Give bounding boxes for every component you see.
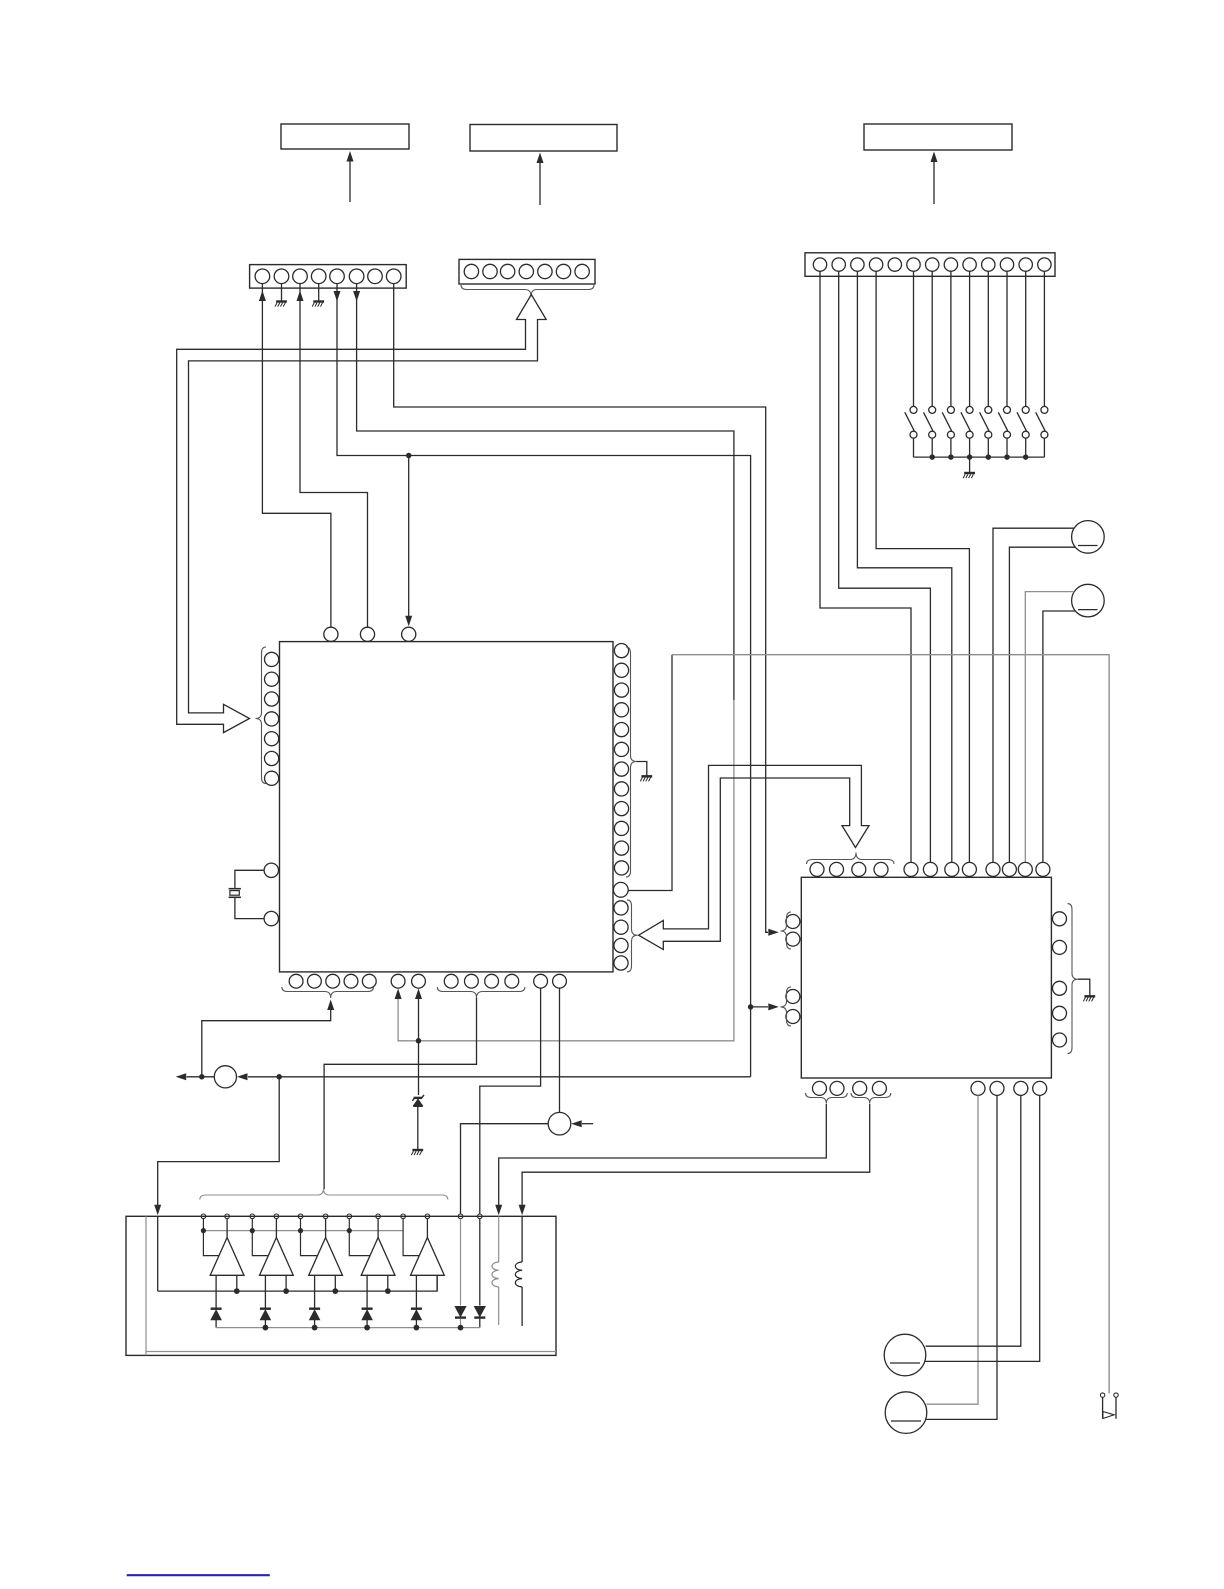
U1 top pins bbox=[324, 627, 338, 641]
wire A5 output to common bus bbox=[436, 1275, 438, 1291]
diode D4 bbox=[362, 1307, 373, 1309]
brace U2 bottom group A bbox=[806, 1093, 848, 1104]
U1 bottom pins 6,7 bbox=[391, 974, 405, 988]
driver amplifier A2 bbox=[260, 1238, 294, 1276]
wire U2 groupA to inductor L1 bbox=[499, 1104, 827, 1206]
wire CN3 pin2 to U2 top bbox=[839, 271, 931, 862]
U2 bottom pins group C bbox=[971, 1081, 985, 1095]
IC U1 body bbox=[280, 642, 614, 972]
brace U2 right pins bbox=[1068, 904, 1079, 1054]
wire inductor L2 tail bbox=[521, 1287, 523, 1326]
wire U1 pin7 to zener bbox=[418, 997, 420, 1096]
ground at switch bus bbox=[964, 472, 975, 474]
driver amplifier A4 bbox=[361, 1238, 395, 1276]
driver amplifier A3 bbox=[309, 1238, 343, 1276]
connector CN3 body bbox=[805, 253, 1055, 276]
diode return bus bbox=[216, 1327, 480, 1329]
wire bottom group B to driver block brace bbox=[324, 998, 476, 1189]
wire CN3 pin10 to switch S5 bbox=[987, 271, 989, 406]
motor connector MB bbox=[885, 1392, 927, 1434]
wire A4 output to common bus bbox=[387, 1275, 389, 1291]
wire rail to driver block left input bbox=[158, 1077, 280, 1206]
brace over driver block bbox=[200, 1189, 448, 1200]
arrow into driver block (L2) bbox=[519, 1205, 526, 1216]
wire CN3 pin8 to switch S3 bbox=[950, 271, 952, 406]
switch S7 bbox=[1022, 406, 1029, 413]
wire CN1 pin8 to U2 left group1 bbox=[394, 284, 768, 933]
brace U1 bottom group B bbox=[437, 987, 525, 998]
label box 1 (top left) bbox=[281, 124, 409, 149]
wire A4 output to diode D4 bbox=[366, 1275, 368, 1307]
wire CN1 pin5 bus bbox=[337, 284, 751, 1077]
U1 bottom pins 12,13 bbox=[534, 974, 548, 988]
brace over U2 top-left pins bbox=[807, 853, 895, 865]
wire CN3 pin3 to U2 top bbox=[857, 271, 951, 862]
motor connector MA bbox=[884, 1334, 926, 1376]
junction enable bus A4 bbox=[347, 1228, 352, 1233]
CN1 pin5 input arrow (down) bbox=[334, 291, 341, 302]
wire J2 lower to U2 top bbox=[1043, 611, 1075, 862]
wire CN3 pin4 to U2 top bbox=[876, 271, 969, 862]
brace under CN2 bbox=[461, 285, 594, 297]
junction enable bus A2 bbox=[250, 1228, 255, 1233]
U1 right pin 13 (serial out) bbox=[613, 882, 628, 897]
wire input A4 bbox=[349, 1219, 369, 1256]
wire CN1 pin6 upper bbox=[357, 284, 734, 700]
ground at zener bbox=[412, 1149, 423, 1151]
wire CN3 pin11 to switch S6 bbox=[1006, 271, 1008, 406]
wire to buzzer bbox=[1108, 655, 1110, 1393]
wire input A1 bbox=[203, 1219, 218, 1256]
switch S2 bbox=[929, 406, 936, 413]
wire U1 pin13 long rail to buzzer bbox=[628, 655, 672, 891]
wire diode D4 to return bus bbox=[366, 1320, 368, 1328]
wire A3 output to diode D3 bbox=[314, 1275, 316, 1307]
switch S5 bbox=[985, 406, 992, 413]
wire U2 to motor connector MA lower bbox=[925, 1095, 1039, 1361]
wire zener to ground bbox=[417, 1106, 419, 1149]
node M circle bbox=[548, 1112, 571, 1135]
CN1 pin4 ground stub bbox=[318, 284, 320, 301]
diode D2 bbox=[260, 1307, 271, 1309]
arrow into node N bbox=[237, 1073, 248, 1080]
diode D7 bbox=[475, 1307, 486, 1317]
hollow bus arrow CN2 / U1 (block arrow pipe) bbox=[177, 295, 547, 733]
inductor L1 bbox=[492, 1262, 499, 1287]
driver common bus bbox=[158, 1275, 437, 1291]
diode D6 bbox=[455, 1307, 466, 1317]
arrow up into U1 bottom pin6 bbox=[395, 989, 402, 1000]
brace U1 bottom group A bbox=[282, 987, 374, 998]
wire inductor L1 tail bbox=[498, 1287, 500, 1325]
driver block input terminals bbox=[201, 1214, 206, 1219]
wire input B1 bbox=[226, 1219, 228, 1238]
wire CN1 pin3 to U1 top pin2 bbox=[300, 284, 368, 628]
wire input B4 bbox=[377, 1219, 379, 1238]
wire A2 output to diode D2 bbox=[264, 1275, 266, 1307]
wire U1 pin13b to node M bbox=[559, 988, 561, 1112]
junction common bus A1 bbox=[234, 1288, 240, 1294]
wire rail left segment bbox=[187, 1076, 215, 1078]
wire A1 output to diode D1 bbox=[215, 1275, 217, 1307]
switch common bus bbox=[914, 456, 1045, 458]
wire CN3 pin1 to U2 top bbox=[820, 271, 911, 862]
junction enable bus A1 bbox=[201, 1228, 206, 1233]
driver block body bbox=[126, 1216, 556, 1355]
wire CN3 pin12 to switch S7 bbox=[1025, 271, 1027, 406]
wire diode D5 to return bus bbox=[415, 1320, 417, 1328]
wire J1 lower to U2 top bbox=[1009, 547, 1075, 862]
U1 crystal pin XT2 bbox=[264, 911, 278, 925]
connector CN2 body bbox=[459, 259, 595, 284]
IC U2 body bbox=[801, 877, 1051, 1078]
wire bottom group A to left rail bbox=[202, 1008, 331, 1077]
wire input A5 bbox=[403, 1219, 419, 1256]
switch S1 bbox=[910, 406, 917, 413]
diode D3 bbox=[309, 1307, 320, 1309]
switch S6 bbox=[1004, 406, 1011, 413]
inductor L2 bbox=[515, 1262, 522, 1287]
wire U2 to motor connector MA upper bbox=[926, 1095, 1021, 1346]
connector CN1 body bbox=[250, 265, 407, 289]
driver enable bus bbox=[203, 1230, 403, 1232]
wire inside block to mid bus bbox=[157, 1216, 159, 1291]
U1 right pin group 2 bbox=[614, 901, 628, 915]
U2 left pins group 1 bbox=[786, 915, 800, 929]
wire U2 groupB to inductor L2 bbox=[522, 1104, 870, 1206]
CN1 pin3 output arrow (up) bbox=[297, 291, 304, 302]
round connector J2 bbox=[1072, 584, 1105, 617]
node N circle bbox=[214, 1066, 236, 1088]
branch wire to U1 top pin3 bbox=[408, 456, 410, 618]
round connector J1 bbox=[1072, 521, 1105, 554]
wire J2 upper to U2 top bbox=[1025, 592, 1074, 863]
brace U2 left group 2 bbox=[781, 987, 792, 1026]
wire diode D7 input bbox=[479, 1219, 481, 1306]
wire U1 pin12 to diode D7 bbox=[480, 988, 541, 1214]
wire A5 output to diode D5 bbox=[415, 1275, 417, 1307]
wire U2 right brace to ground bbox=[1078, 979, 1090, 996]
CN1 pin2 ground stub bbox=[281, 284, 283, 301]
junction common bus A3 bbox=[332, 1288, 338, 1294]
U1 left pin group bbox=[265, 652, 279, 666]
U2 left pins group 2 bbox=[786, 990, 800, 1004]
U2 right pins bbox=[1053, 912, 1067, 926]
arrow into U2 left group 1 bbox=[768, 929, 779, 936]
U2 bottom pins group B bbox=[853, 1081, 867, 1095]
U2 bottom pins group A bbox=[813, 1081, 827, 1095]
brace U2 bottom group B bbox=[851, 1093, 891, 1104]
U1 bottom pin group B bbox=[444, 974, 458, 988]
driver amplifier A5 bbox=[411, 1238, 445, 1276]
wire inductor L1 branch bbox=[498, 1216, 500, 1262]
wire CN1 pin6 lower (to U1 bottom pin6) bbox=[398, 700, 734, 1041]
driver block inner left edge bbox=[145, 1216, 147, 1355]
wire A1 output to common bus bbox=[236, 1275, 238, 1291]
wire U2 to motor connector MB lower bbox=[926, 1095, 997, 1419]
driver block inner bottom edge bbox=[146, 1351, 556, 1353]
junction common bus A2 bbox=[283, 1288, 289, 1294]
wire A3 output to common bus bbox=[334, 1275, 336, 1291]
junction of zener rail bbox=[416, 1038, 422, 1044]
wire CN1 pin1 to U1 top pin1 bbox=[262, 284, 331, 628]
switch S8 bbox=[1041, 406, 1048, 413]
wire CN3 pin6 to switch S1 bbox=[913, 271, 915, 406]
U1 right pin group 1 bbox=[614, 644, 628, 658]
wire diode D2 to return bus bbox=[264, 1320, 266, 1328]
switch S3 bbox=[947, 406, 954, 413]
arrow into label box 1 bbox=[349, 160, 351, 202]
label box 2 (top middle) bbox=[470, 125, 617, 152]
wire J1 upper to U2 top bbox=[993, 528, 1074, 862]
ground at CN1 pin4 bbox=[313, 300, 324, 302]
connector CN3 pins bbox=[813, 258, 826, 271]
junction rail branch to driver block bbox=[276, 1074, 282, 1080]
arrow into driver block (L1) bbox=[495, 1205, 502, 1216]
junction enable bus A3 bbox=[298, 1228, 303, 1233]
junction rail / group A wire bbox=[199, 1074, 205, 1080]
hollow bus arrow U1 / U2 (block arrow pipe) bbox=[639, 765, 869, 949]
wire input B3 bbox=[325, 1219, 327, 1238]
arrow stub into node M bbox=[571, 1120, 582, 1127]
wire CN3 pin9 to switch S4 bbox=[969, 271, 971, 406]
wire diode D6 input bbox=[460, 1219, 462, 1306]
wire rail right segment bbox=[248, 1076, 751, 1078]
driver amplifier A1 bbox=[210, 1238, 244, 1276]
ground at U2 right bbox=[1084, 995, 1095, 997]
arrow into driver block left bbox=[154, 1205, 161, 1216]
junction common bus A4 bbox=[385, 1288, 391, 1294]
crystal X1 bbox=[229, 888, 241, 890]
CN1 pin6 input arrow (down) bbox=[353, 291, 360, 302]
wire node M to diode D6 bbox=[461, 1124, 549, 1214]
wire brace1 to ground bbox=[637, 762, 647, 776]
wire input A3 bbox=[301, 1219, 318, 1256]
wire CN3 pin7 to switch S2 bbox=[931, 271, 933, 406]
ground at U1 right bbox=[641, 775, 652, 777]
diode D5 bbox=[411, 1307, 422, 1309]
branch arrow into U2 left group 2 bbox=[751, 1006, 768, 1008]
wire crystal loop bbox=[235, 870, 264, 888]
arrow up into bottom group A brace bbox=[327, 1000, 334, 1011]
connector CN2 pins bbox=[464, 264, 478, 278]
arrow into label box 2 bbox=[539, 163, 541, 205]
U1 bottom pin group A bbox=[289, 974, 303, 988]
wire CN3 pin13 to switch S8 bbox=[1043, 271, 1045, 406]
wire diode D6 to return bus bbox=[460, 1319, 462, 1328]
wire input B5 bbox=[426, 1219, 428, 1238]
wire input B2 bbox=[275, 1219, 277, 1238]
brace U1 right pin group 2 bbox=[627, 900, 638, 972]
wire A2 output to common bus bbox=[285, 1275, 287, 1291]
left output arrow of rail bbox=[176, 1073, 187, 1080]
return bus junctions bbox=[263, 1325, 269, 1331]
brace U2 left group 1 bbox=[781, 912, 792, 949]
diode D1 bbox=[211, 1307, 222, 1309]
U1 crystal pin XT1 bbox=[264, 863, 278, 877]
brace U1 left pin group bbox=[256, 647, 267, 784]
switch bus ground stub bbox=[969, 457, 971, 472]
U2 top pins bbox=[810, 862, 824, 876]
wire diode D1 to return bus bbox=[215, 1320, 217, 1328]
wire diode D3 to return bus bbox=[314, 1320, 316, 1328]
footer rule bbox=[127, 1574, 270, 1576]
switch bus junctions bbox=[929, 454, 935, 460]
junction on pin5 bus at U1 branch bbox=[406, 453, 412, 459]
wire inductor L2 branch bbox=[521, 1216, 523, 1262]
switch S4 bbox=[966, 406, 973, 413]
wire input A2 bbox=[252, 1219, 267, 1256]
connector CN1 pins bbox=[255, 269, 270, 284]
wire U2 to motor connector MB upper bbox=[927, 1095, 979, 1404]
zener diode ZD1 bbox=[422, 1095, 424, 1098]
arrow up into U1 bottom pin7 bbox=[415, 989, 422, 1000]
brace U1 right pin group 1 bbox=[626, 647, 637, 877]
buzzer BZ1 bbox=[1100, 1393, 1104, 1397]
arrow into label box 3 bbox=[933, 162, 935, 204]
label box 3 (top right) bbox=[864, 124, 1012, 150]
CN1 pin1 output arrow (up) bbox=[259, 291, 266, 302]
wire diode D7 to return bus bbox=[479, 1319, 481, 1328]
ground at CN1 pin2 bbox=[276, 300, 287, 302]
junction on pin5 bus at U2 branch bbox=[748, 1004, 754, 1010]
